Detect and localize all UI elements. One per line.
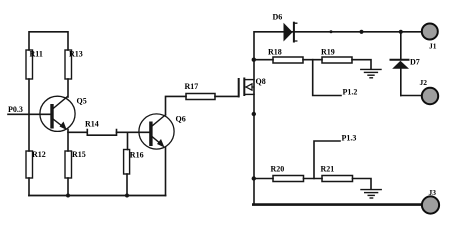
wire Q5 emitter down [67,130,69,152]
svg-text:J3: J3 [429,188,437,197]
node P1.3 wire [314,141,340,179]
svg-text:R16: R16 [130,151,144,160]
wire R15 bottom [67,178,69,196]
resistor R12 [26,151,33,178]
svg-text:R19: R19 [321,48,335,57]
svg-text:R14: R14 [85,120,99,129]
ground (upper) [361,69,381,77]
diode D7 [391,32,420,96]
svg-text:P0.3: P0.3 [8,105,23,114]
wire bottom-left rail [29,195,166,197]
wire P0.3 to Q5 base [8,113,52,115]
resistor R13 [65,50,72,79]
resistor R14 [87,130,116,136]
wire Q8 drain/source vertical and top rail to J1 [254,32,422,205]
connector J1 [422,24,438,40]
svg-text:Q8: Q8 [256,77,266,86]
svg-text:P1.3: P1.3 [342,134,357,143]
resistor R11 [26,50,33,79]
svg-text:R11: R11 [30,50,43,59]
svg-text:D6: D6 [273,13,283,22]
wire junction down to R16 [127,132,129,149]
wire to R20 [254,178,273,180]
svg-text:D7: D7 [410,58,420,67]
resistor R17 [186,94,215,100]
wire emitter node to R14 [68,131,87,133]
svg-text:R18: R18 [268,48,282,57]
node P1.2 wire [313,60,341,96]
svg-text:R17: R17 [185,82,199,91]
svg-text:R21: R21 [321,165,335,174]
wire Q6 emitter to bottom rail [165,147,167,196]
transistor Q6 [139,114,186,149]
wire R17 to Q8 gate [215,95,239,97]
MOSFET Q8 [239,77,266,96]
wire R14 to Q6 base [117,131,150,133]
wire R12 bottom to left rail [28,178,30,196]
wire R19 to ground [352,60,371,69]
wire R16 bottom [126,174,128,196]
transistor Q5 [40,96,87,131]
junction dot on top rail (small) [330,30,333,33]
svg-text:Q5: Q5 [77,97,87,106]
wire bottom-right thick rail [253,203,421,206]
svg-text:Q6: Q6 [176,115,186,124]
svg-text:R12: R12 [32,150,46,159]
junction dot R15/rail [66,194,70,198]
resistor R18 [273,57,303,63]
wire Q6 collector up to R17 [166,96,187,115]
resistor R20 [273,176,304,182]
resistor R15 [65,151,72,178]
svg-text:J2: J2 [420,78,428,87]
junction dot R20 row [252,176,256,180]
junction dot on top rail (larger) [359,30,363,34]
svg-text:P1.2: P1.2 [343,88,358,97]
junction dot D7 branch [399,30,403,34]
wire R21 to ground [353,179,372,190]
resistor R19 [322,57,352,63]
ground (lower) [361,190,381,198]
wire R20 to R21 [304,178,323,180]
svg-text:J1: J1 [429,42,437,51]
wire R11 bottom to R12 top [28,79,30,151]
connector J3 [422,196,439,213]
svg-text:R20: R20 [271,165,285,174]
junction dot R18 row [252,58,256,62]
wire D7 to J2 [401,95,422,97]
wire R13 to Q5 collector [67,79,69,97]
resistor R16 [124,150,130,175]
junction dot R16/rail [125,194,129,198]
wire top-left rail R11 to R13 [29,32,68,50]
diode D6 [273,13,297,42]
wire R18 to R19 [303,59,322,61]
connector J2 [422,88,438,104]
junction dot (mid source wire) [252,112,256,116]
svg-text:R15: R15 [72,150,86,159]
wire to R18 [254,59,273,61]
svg-text:R13: R13 [69,50,83,59]
resistor R21 [322,176,353,182]
